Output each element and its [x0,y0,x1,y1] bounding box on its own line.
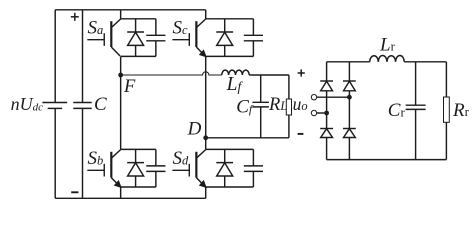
wire leg1 collector stub [120,10,122,19]
diode D3 (left bottom) [320,129,333,138]
label nUdc [11,94,44,114]
svg-text:Lr: Lr [379,34,396,55]
antiparallel diode of Sa [127,19,144,57]
svg-text:Lf: Lf [226,74,244,95]
node F [118,73,123,78]
capacitor Cf [253,75,269,138]
wire bridge right leg [348,62,350,160]
wire leg1 mid (through node F) [120,56,122,149]
inductor Lr [370,55,405,61]
label Rr [452,100,470,121]
svg-text:C: C [94,94,107,115]
svg-text:Sb: Sb [87,148,103,169]
antiparallel diode of Sc [216,19,233,57]
wire leg2 collector stub [205,10,207,19]
label Cr [388,100,406,121]
label RL [268,95,287,115]
svg-text:F: F [123,77,136,97]
wire bottom of cell Sa [121,55,156,57]
snubber capacitor of Sd [244,149,263,187]
svg-text:RL: RL [268,95,287,115]
svg-text:nUdc: nUdc [11,94,44,114]
IGBT Sd [172,150,205,187]
plus sign of dc bus [71,13,79,21]
wire node F to Lf with crossover hop [121,72,222,75]
terminal bottom circle [311,110,316,115]
label Lf [226,74,244,95]
capacitor Cr [406,62,426,160]
label Lr [379,34,396,55]
wire node D to RL bottom [206,137,289,139]
wire top of cell Sb [121,148,156,150]
wire Lf to RL top [249,74,289,76]
wire bridge left leg [326,62,328,160]
node D [203,135,208,140]
label F [123,77,136,97]
diode D2 (right top) [343,81,356,91]
resistor Rr [444,62,450,160]
plus sign of output uo [298,69,305,76]
wire top of cell Sa [121,18,156,20]
wire leg2 mid (through node D) [205,56,207,149]
label D [187,119,202,140]
svg-text:Cr: Cr [388,100,406,121]
svg-text:Sa: Sa [87,18,103,39]
wire top of cell Sc [206,18,254,20]
label Sd [173,148,190,169]
junction dot on right leg [347,95,352,100]
wire bottom terminal to bridge left leg [317,112,327,114]
snubber capacitor of Sc [244,19,263,57]
wire bottom dc rail [55,197,206,199]
IGBT Sb [87,150,120,187]
wire bottom of cell Sb [121,186,156,188]
wire top of cell Sd [206,148,254,150]
svg-text:D: D [187,119,202,140]
terminal top circle [311,95,316,100]
junction dot on left leg [324,111,329,116]
wire top terminal to bridge right leg [317,96,350,98]
svg-text:Rr: Rr [452,100,470,121]
label Cf [236,96,254,117]
svg-text:Sd: Sd [173,148,190,169]
snubber capacitor of Sb [146,149,165,187]
antiparallel diode of Sb [127,149,144,187]
IGBT Sa [87,19,120,56]
wire bridge bottom rail [327,159,447,161]
svg-text:uo: uo [293,94,308,114]
label uo [293,94,308,114]
label Sc [173,18,189,39]
minus sign of dc bus [71,191,78,193]
wire bottom of cell Sc [206,55,254,57]
antiparallel diode of Sd [216,149,233,187]
inductor Lf [222,70,249,75]
label Sa [87,18,103,39]
capacitor C [73,10,91,199]
diode D1 (left top) [320,81,333,91]
label Sb [87,148,103,169]
wire Lr to Rr top [404,61,446,63]
wire leg1 emitter stub [120,187,122,198]
wire bottom of cell Sd [206,186,254,188]
minus sign of output uo [298,133,304,135]
dc source nUdc [42,10,67,199]
wire top dc rail [55,9,206,11]
wire leg2 emitter stub [205,187,207,198]
wire bridge top to Lr [327,61,370,63]
resistor RL [286,75,291,138]
svg-text:Sc: Sc [173,18,189,39]
label C [94,94,107,115]
svg-text:Cf: Cf [236,96,254,117]
diode D4 (right bottom) [343,129,356,138]
snubber capacitor of Sa [146,19,165,57]
IGBT Sc [172,19,205,56]
